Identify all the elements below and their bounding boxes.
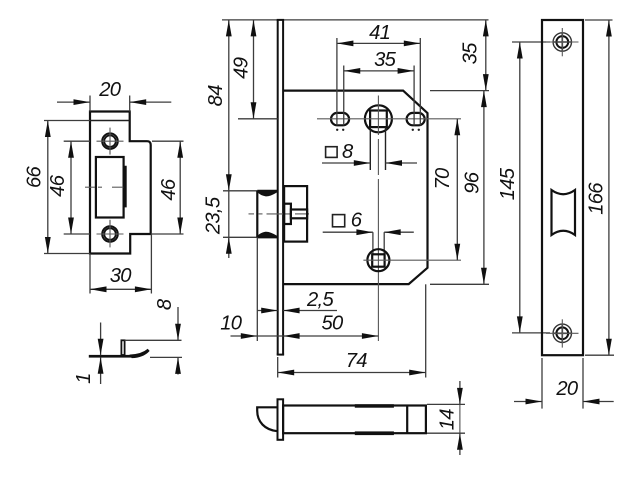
svg-text:20: 20 [98,79,122,101]
svg-text:66: 66 [24,166,46,189]
svg-text:46: 46 [47,174,69,197]
svg-text:35: 35 [460,42,482,65]
svg-text:8: 8 [154,298,176,310]
svg-text:46: 46 [158,178,180,201]
svg-text:30: 30 [110,265,133,287]
svg-text:145: 145 [497,167,519,200]
svg-text:1: 1 [73,373,95,384]
svg-text:41: 41 [369,22,390,44]
svg-text:8: 8 [342,141,354,163]
svg-text:10: 10 [220,313,243,335]
svg-text:84: 84 [205,85,227,107]
svg-text:70: 70 [432,167,454,190]
svg-text:35: 35 [374,49,397,71]
svg-text:49: 49 [231,57,253,79]
svg-text:20: 20 [555,378,579,400]
svg-text:14: 14 [436,409,458,431]
svg-text:96: 96 [461,171,483,194]
svg-text:74: 74 [346,350,368,372]
svg-text:50: 50 [321,313,344,335]
svg-text:166: 166 [585,182,607,215]
svg-text:23,5: 23,5 [202,196,224,235]
svg-text:6: 6 [351,210,363,232]
svg-text:2,5: 2,5 [306,289,334,311]
